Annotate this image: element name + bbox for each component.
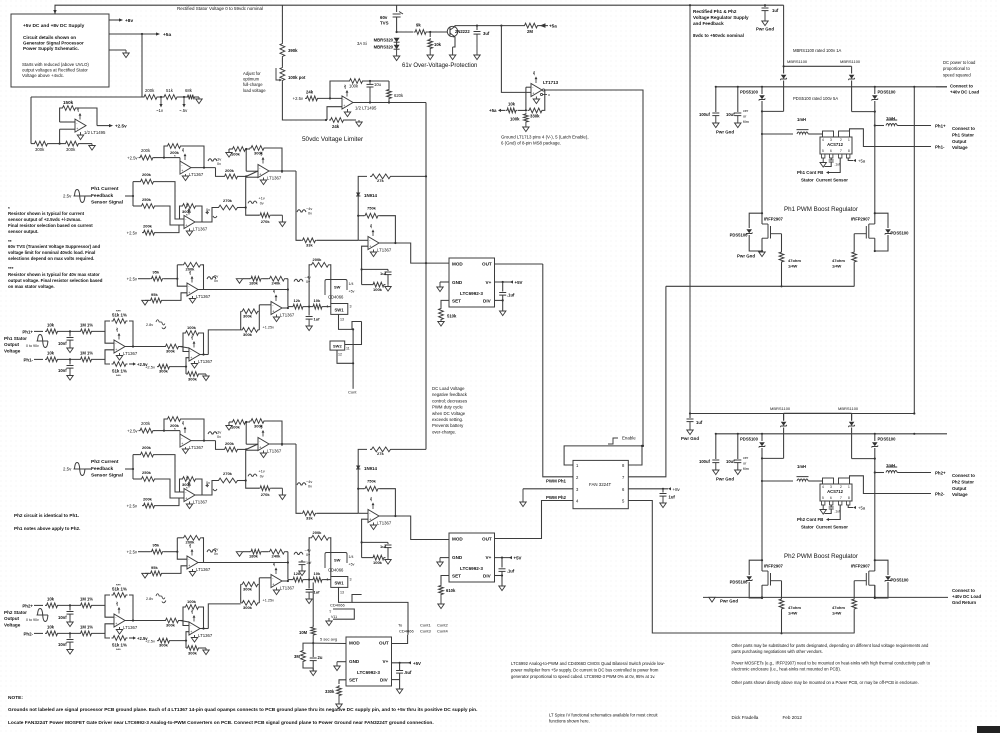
svg-text:0v: 0v — [206, 208, 210, 212]
junction — [780, 285, 782, 287]
wire node — [358, 176, 367, 240]
wire — [125, 195, 133, 197]
ground 100k — [226, 153, 232, 158]
svg-text:DIV: DIV — [483, 574, 492, 579]
wire +5a — [109, 33, 156, 35]
resistor 750k — [364, 213, 380, 218]
arrow cont fb — [826, 518, 829, 521]
junction — [780, 632, 782, 634]
junction — [308, 306, 310, 308]
wire V+ — [495, 281, 514, 283]
svg-text:PWM Ph2: PWM Ph2 — [546, 495, 567, 500]
wire — [183, 621, 189, 626]
svg-text:2.8v: 2.8v — [146, 323, 153, 327]
ground — [191, 361, 197, 368]
wire — [158, 96, 163, 98]
wire source right — [874, 585, 876, 598]
wire — [303, 663, 313, 668]
svg-text:200k: 200k — [141, 148, 151, 153]
junction — [525, 109, 527, 111]
wire cont fb — [829, 158, 840, 173]
resistor 300k — [157, 364, 171, 369]
wire — [180, 346, 183, 348]
junction — [761, 433, 763, 435]
wire — [177, 537, 182, 539]
junction top wire — [689, 4, 691, 6]
svg-text:270k: 270k — [261, 492, 271, 497]
wire down — [296, 444, 301, 513]
svg-text:+2.5v: +2.5v — [127, 156, 138, 161]
resistor 300k — [241, 601, 260, 606]
capacitor 1uf — [385, 272, 392, 275]
wire — [853, 264, 855, 287]
svg-text:60vTVS: 60vTVS — [380, 15, 389, 26]
wire cont fb — [829, 505, 840, 520]
wire — [358, 215, 364, 217]
svg-text:~5v: ~5v — [212, 548, 218, 552]
ground limiter — [356, 120, 362, 127]
ground — [660, 496, 666, 508]
svg-text:*: * — [186, 486, 188, 491]
wire — [362, 268, 388, 270]
svg-text:11: 11 — [346, 347, 350, 351]
corner mark — [977, 726, 1000, 733]
resistor 200k feedback — [166, 144, 182, 149]
wire inv — [177, 279, 187, 287]
svg-text:+5V: +5V — [514, 556, 522, 561]
svg-text:LT1367: LT1367 — [198, 633, 213, 638]
wire — [874, 448, 876, 459]
diode 1N914 — [356, 193, 360, 197]
svg-text:1uf: 1uf — [380, 271, 387, 276]
wire — [200, 333, 204, 355]
power +8v — [369, 497, 375, 509]
wire — [129, 637, 133, 639]
wire pin6 — [628, 488, 668, 490]
junction — [69, 330, 71, 332]
inductor 1mH — [886, 467, 897, 473]
svg-text:100k: 100k — [231, 425, 241, 430]
svg-text:10k: 10k — [47, 351, 55, 356]
junction — [281, 170, 283, 172]
svg-text:5 sec avg: 5 sec avg — [320, 637, 337, 642]
junction — [202, 627, 204, 629]
wire inv — [259, 304, 271, 306]
wire — [305, 579, 312, 581]
junction — [202, 353, 204, 355]
junction — [203, 167, 205, 169]
svg-text:200k: 200k — [225, 168, 235, 173]
wire fb — [180, 206, 185, 219]
svg-text:300k: 300k — [159, 643, 169, 648]
ground — [279, 215, 285, 226]
IC ACS712 Ph1 — [820, 131, 852, 158]
svg-text:100k: 100k — [373, 560, 383, 565]
waveform annotation — [297, 210, 306, 212]
junction — [874, 250, 876, 252]
svg-text:300k: 300k — [243, 332, 253, 337]
wire — [247, 421, 250, 423]
wire plus node — [362, 246, 368, 284]
wire — [387, 269, 389, 271]
svg-text:~3v: ~3v — [215, 431, 221, 435]
svg-text:Pwr Gnd: Pwr Gnd — [716, 130, 734, 135]
wire — [129, 321, 133, 347]
wire — [324, 579, 331, 581]
power +8v op-amp — [76, 107, 82, 119]
IC ACS712 Ph2 — [820, 478, 852, 505]
wire T7 Ph2 out to averager — [312, 583, 314, 627]
junction — [874, 596, 876, 598]
svg-text:+: + — [272, 310, 274, 314]
junction — [329, 97, 331, 99]
svg-text:1mH: 1mH — [797, 117, 806, 122]
svg-text:GND: GND — [349, 659, 360, 664]
wire DIV — [495, 299, 503, 301]
wire — [271, 487, 282, 489]
arrow +5a — [853, 506, 856, 509]
svg-text:PWM Ph1: PWM Ph1 — [546, 478, 567, 483]
svg-text:1: 1 — [327, 578, 329, 582]
wire — [476, 26, 478, 30]
junction — [369, 80, 371, 82]
wire — [502, 282, 504, 292]
wire OUT down to FAN pin2 — [543, 264, 573, 477]
junction — [874, 458, 876, 460]
capacitor .1uf — [499, 569, 506, 572]
svg-text:2.5v: 2.5v — [63, 194, 72, 199]
svg-text:DIV: DIV — [483, 299, 492, 304]
wire — [501, 25, 523, 27]
ground — [142, 300, 148, 305]
svg-text:Pwr Gnd: Pwr Gnd — [756, 27, 774, 32]
wire to Ph- out — [850, 476, 932, 494]
svg-text:10M: 10M — [299, 630, 308, 635]
svg-text:1uf: 1uf — [669, 495, 676, 500]
junction — [502, 281, 504, 283]
wire — [177, 264, 182, 266]
svg-text:300k: 300k — [66, 147, 76, 152]
wire — [662, 489, 664, 493]
svg-text:+2.5v: +2.5v — [127, 550, 138, 555]
svg-text:27k: 27k — [377, 451, 384, 456]
wire — [59, 330, 79, 332]
svg-text:240k: 240k — [272, 554, 282, 559]
wire — [185, 641, 187, 648]
junction — [245, 448, 247, 450]
wire inv — [177, 552, 187, 560]
wire — [154, 157, 164, 159]
wire drive out to MOD — [379, 516, 450, 540]
svg-text:LT1367: LT1367 — [377, 248, 392, 253]
wire — [875, 582, 888, 598]
resistor 10k — [312, 304, 324, 309]
wire fb — [183, 333, 184, 352]
ground limiter op-amp — [344, 109, 350, 117]
junction — [715, 433, 717, 435]
wire sw — [339, 314, 362, 329]
dash — [920, 493, 931, 495]
pot wiper — [276, 68, 279, 80]
junction — [642, 445, 644, 447]
svg-text:+8v: +8v — [532, 71, 536, 76]
svg-text:1uf: 1uf — [772, 8, 779, 13]
svg-text:+1v: +1v — [259, 470, 265, 474]
wire +5a pin8 — [848, 158, 853, 161]
wire — [851, 428, 853, 459]
wire — [392, 175, 426, 177]
op-amp LT1367 Ph2 T3 — [258, 438, 282, 454]
svg-text:Dick Fradella: Dick Fradella — [732, 715, 759, 720]
svg-text:+2.5v: +2.5v — [293, 96, 304, 101]
svg-text:LTC6992 Analog-to-PWM and CD40: LTC6992 Analog-to-PWM and CD4066D CMOS Q… — [511, 661, 665, 679]
schottky MBRS1100 left — [781, 422, 787, 427]
wire feedback up — [330, 81, 348, 98]
svg-text:***: *** — [116, 583, 121, 588]
svg-text:100uf: 100uf — [699, 112, 711, 117]
wire — [138, 551, 150, 553]
resistor 100k pot — [280, 66, 285, 82]
wire — [822, 134, 824, 137]
ground — [203, 648, 209, 655]
svg-text:PDS5100: PDS5100 — [891, 578, 910, 583]
wire clamp — [749, 213, 762, 228]
svg-text:2M: 2M — [527, 29, 533, 34]
wire switch node right — [852, 458, 875, 460]
wire — [761, 101, 763, 111]
resistor 100k — [348, 79, 364, 84]
wire ph2 rail — [690, 413, 914, 415]
wire — [133, 454, 139, 456]
op-amp LT1367 Ph2 T2 — [184, 489, 208, 505]
svg-text:+: + — [115, 622, 117, 626]
capacitor 1uf ph2 — [301, 560, 303, 562]
svg-text:Ph1 PWM Boost Regulator: Ph1 PWM Boost Regulator — [784, 206, 858, 213]
svg-text:+2.5v: +2.5v — [145, 639, 155, 644]
svg-text:+: + — [188, 291, 190, 295]
wire — [312, 637, 314, 644]
resistor 200k — [310, 262, 330, 267]
svg-text:27k: 27k — [377, 178, 384, 183]
ground supply box — [123, 50, 129, 58]
svg-text:+8v: +8v — [115, 327, 119, 332]
svg-text:V+: V+ — [486, 280, 492, 285]
svg-text:10k: 10k — [47, 323, 55, 328]
wire to T2 — [155, 182, 184, 219]
junction — [361, 268, 363, 270]
resistor 100k — [231, 420, 247, 425]
svg-text:10u: 10u — [374, 82, 382, 87]
wire — [764, 5, 766, 7]
svg-text:LT1367: LT1367 — [123, 351, 138, 356]
wire — [85, 195, 91, 197]
wire — [258, 311, 260, 330]
junction — [874, 433, 876, 435]
junction — [141, 33, 143, 35]
wire — [737, 87, 739, 112]
ground TVS — [393, 49, 399, 60]
svg-text:IRFP2907: IRFP2907 — [851, 217, 871, 222]
wire to resistor — [397, 31, 413, 33]
svg-text:+: + — [343, 104, 345, 108]
wire pin1 enable — [564, 446, 643, 465]
wire — [216, 168, 224, 177]
wire — [182, 419, 204, 441]
ground acs — [820, 158, 826, 167]
junction — [761, 480, 763, 482]
capacitor 1uf ph2 rail — [687, 419, 694, 422]
svg-text:0v: 0v — [217, 162, 221, 166]
op-amp LT1367 Ph1 stator T6 — [189, 348, 213, 364]
wire — [288, 306, 292, 308]
svg-text:+5a: +5a — [549, 24, 557, 29]
resistor 24k — [305, 96, 319, 101]
svg-text:.5uf: .5uf — [404, 670, 412, 675]
wire sw to Cont — [352, 329, 354, 388]
svg-text:+: + — [369, 518, 371, 522]
junction — [388, 101, 390, 103]
wire — [875, 235, 888, 251]
svg-text:Ph2 Cont FB: Ph2 Cont FB — [797, 517, 823, 522]
junction — [425, 262, 427, 264]
dash bus — [936, 86, 947, 88]
wire sw — [339, 587, 362, 602]
wire — [501, 571, 503, 586]
svg-text:250k: 250k — [142, 197, 152, 202]
junction — [874, 124, 876, 126]
svg-text:Ph2 circuit is identical to Ph: Ph2 circuit is identical to Ph1. — [14, 513, 79, 518]
wire — [229, 148, 231, 150]
wire — [30, 97, 32, 144]
wire — [388, 100, 390, 103]
ground box3 — [396, 689, 402, 694]
svg-text:6: 6 — [830, 496, 832, 500]
ground — [67, 614, 73, 627]
junction — [132, 468, 134, 470]
wire — [358, 239, 368, 241]
junction — [399, 662, 401, 664]
wire limiter output — [353, 102, 426, 104]
capacitor 1uf — [299, 562, 306, 565]
svg-text:+1.25v: +1.25v — [263, 599, 275, 603]
ground row — [236, 552, 242, 557]
wire — [69, 633, 71, 638]
arrow +5V — [510, 280, 513, 283]
svg-text:OUT: OUT — [482, 262, 492, 267]
svg-text:+8v: +8v — [181, 148, 185, 153]
wire — [59, 604, 79, 606]
power +8v — [181, 148, 187, 160]
wire — [59, 358, 79, 360]
svg-text:10k: 10k — [434, 42, 442, 47]
svg-text:OUT: OUT — [482, 537, 492, 542]
schottky PDS5100 clamp right — [885, 229, 891, 234]
ground op-amp — [77, 132, 83, 140]
resistor 300k — [241, 582, 260, 587]
arrow +5V box3 — [408, 661, 411, 664]
svg-text:SW1: SW1 — [335, 308, 345, 313]
wire — [34, 358, 43, 360]
wire — [138, 278, 150, 280]
wire — [737, 434, 739, 459]
wire sum node — [245, 421, 247, 444]
ground — [687, 422, 693, 435]
wire +5a pin8 — [848, 505, 853, 508]
wire GND — [440, 557, 449, 559]
svg-text:2: 2 — [840, 485, 842, 489]
resistor 200k — [223, 174, 239, 179]
op-amp LT1367 Ph2 T1 — [180, 434, 204, 450]
wire — [183, 347, 189, 352]
wire — [288, 579, 292, 581]
enable step — [608, 438, 618, 444]
wire — [387, 275, 389, 285]
junction — [689, 412, 691, 414]
wire to inverting — [319, 97, 342, 99]
wire — [239, 207, 246, 209]
svg-text:Ph2-: Ph2- — [23, 632, 33, 637]
junction — [308, 579, 310, 581]
ground 100k — [226, 426, 232, 431]
junction — [357, 467, 359, 469]
wire — [362, 284, 372, 286]
ground — [182, 174, 188, 181]
wire — [240, 584, 242, 603]
svg-text:10k: 10k — [314, 571, 321, 576]
wire fb — [183, 607, 184, 626]
power +5a comparator — [532, 71, 538, 83]
resistor 95k — [149, 298, 163, 303]
junction — [501, 574, 503, 576]
svg-text:13: 13 — [340, 591, 344, 595]
wire — [329, 265, 332, 304]
svg-text:0v: 0v — [217, 435, 221, 439]
waveform annotation — [207, 277, 216, 279]
wire up to T7 rows — [208, 604, 240, 629]
svg-text:Ph1-: Ph1- — [23, 358, 33, 363]
svg-text:0v: 0v — [260, 475, 264, 479]
ground — [116, 353, 122, 360]
wire — [308, 580, 310, 589]
capacitor 1uf — [306, 317, 313, 320]
wire GND — [337, 661, 346, 663]
resistor 47ohm — [852, 251, 857, 264]
wire fb — [266, 148, 283, 173]
wire feedback — [77, 108, 97, 126]
comparator LT1713 — [531, 84, 542, 97]
junction — [913, 433, 915, 435]
svg-text:2.5v: 2.5v — [63, 467, 72, 472]
wire — [182, 146, 204, 168]
wire — [851, 414, 853, 421]
svg-text:0v: 0v — [308, 485, 312, 489]
wire to ground — [109, 49, 126, 51]
svg-text:+8v: +8v — [188, 543, 192, 548]
svg-text:+1.25v: +1.25v — [263, 326, 275, 330]
svg-text:MBRS320: MBRS320 — [374, 38, 394, 43]
wire — [761, 434, 763, 441]
resistor 300k feedback — [181, 477, 197, 482]
capacitor 10nf — [67, 612, 74, 615]
svg-text:Stator: Stator — [801, 178, 814, 183]
svg-text:1mH: 1mH — [797, 464, 806, 469]
svg-text:100k pot: 100k pot — [288, 75, 306, 80]
junction — [281, 443, 283, 445]
wire node — [358, 449, 367, 513]
resistor 330k — [337, 685, 342, 697]
wire — [132, 455, 134, 469]
IC LTC6992-3 box1 — [449, 258, 495, 307]
